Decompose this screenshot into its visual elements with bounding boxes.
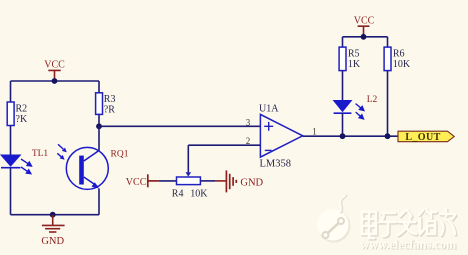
wire pin 2 down to R4 wiper xyxy=(187,145,189,172)
svg-text:1: 1 xyxy=(312,127,317,137)
net label tag L_OUT xyxy=(398,131,454,143)
svg-text:LM358: LM358 xyxy=(260,159,292,170)
wire VCC to R4 xyxy=(159,180,177,182)
junction dot at VCC tap (right) xyxy=(361,34,367,40)
wire bottom rail xyxy=(11,214,100,216)
junction dot R6/output xyxy=(385,133,391,139)
svg-text:www.elecfans.com: www.elecfans.com xyxy=(360,236,456,251)
power symbol VCC (right) xyxy=(358,26,370,37)
junction dot at VCC tap xyxy=(52,78,58,84)
resistor R5 xyxy=(339,47,361,71)
wire R2 to LED TL1 xyxy=(10,126,12,156)
wire left vertical to R2 xyxy=(10,81,12,102)
wire R4 to ground symbol xyxy=(200,180,215,182)
svg-text:?K: ?K xyxy=(16,114,28,125)
R4 wiper arrowhead xyxy=(186,172,192,176)
svg-text:VCC: VCC xyxy=(126,177,147,188)
svg-text:10K: 10K xyxy=(190,189,208,200)
power symbol VCC (left) xyxy=(48,70,60,81)
svg-text:3: 3 xyxy=(246,117,251,127)
wire top to R3 xyxy=(98,81,100,93)
svg-text:RQ1: RQ1 xyxy=(111,150,129,160)
svg-text:?R: ?R xyxy=(104,105,115,116)
wire R5 to LED L2 xyxy=(342,71,344,101)
svg-text:GND: GND xyxy=(240,177,263,188)
svg-text:R6: R6 xyxy=(393,49,405,60)
svg-text:R5: R5 xyxy=(348,49,360,60)
svg-text:U1A: U1A xyxy=(259,104,279,115)
wire TL1 to bottom rail xyxy=(10,168,12,215)
wire rail to R6 xyxy=(387,37,389,47)
resistor R6 xyxy=(384,47,411,71)
power symbol VCC (middle) xyxy=(148,174,159,187)
svg-text:TL1: TL1 xyxy=(32,149,49,159)
wire op-amp output to L_OUT xyxy=(303,135,398,137)
wire R6 to output rail xyxy=(387,71,389,137)
wire op-amp pin 2 xyxy=(188,144,260,146)
svg-text:10K: 10K xyxy=(393,59,411,70)
wire L2 to output rail xyxy=(342,113,344,136)
wire RQ1 emitter to bottom rail xyxy=(98,189,100,215)
op-amp U1A xyxy=(260,114,302,157)
resistor R3 xyxy=(96,93,116,116)
svg-text:R4: R4 xyxy=(172,189,184,200)
svg-text:VCC: VCC xyxy=(354,16,375,27)
potentiometer R4 xyxy=(172,177,208,200)
svg-text:VCC: VCC xyxy=(44,60,65,71)
ground symbol GND (left) xyxy=(42,215,65,232)
wire node A to op-amp pin 3 xyxy=(99,125,260,127)
LED L2 xyxy=(334,101,365,120)
wire R3 to node A xyxy=(98,114,100,126)
svg-text:L_OUT: L_OUT xyxy=(405,132,440,143)
junction dot L2/output xyxy=(340,133,346,139)
LED TL1 xyxy=(1,155,32,174)
ground symbol GND (middle) xyxy=(216,170,237,192)
svg-text:GND: GND xyxy=(41,236,64,247)
wire top-left horizontal xyxy=(11,80,100,82)
wire node A down to RQ1 collector xyxy=(98,126,100,150)
node A junction dot xyxy=(96,123,102,129)
resistor R2 xyxy=(7,102,28,126)
wire top-right rail xyxy=(343,36,388,38)
wire rail to R5 xyxy=(342,37,344,47)
svg-text:1K: 1K xyxy=(348,59,361,70)
svg-text:R3: R3 xyxy=(104,94,116,105)
svg-text:R2: R2 xyxy=(16,104,28,115)
watermark xyxy=(317,194,457,252)
phototransistor RQ1 xyxy=(57,144,108,189)
svg-text:L2: L2 xyxy=(367,95,378,105)
junction dot at GND tap xyxy=(50,212,56,218)
